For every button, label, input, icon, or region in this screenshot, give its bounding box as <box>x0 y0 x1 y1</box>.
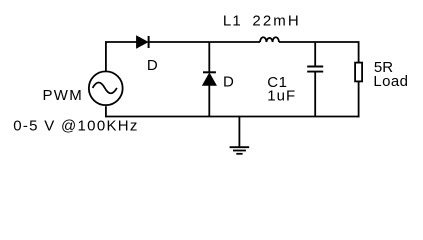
wire: capacitor top lead <box>314 42 316 66</box>
wire: ground stem <box>238 117 240 148</box>
ground <box>230 147 250 154</box>
wire: resistor bottom lead <box>358 81 360 117</box>
wire: freewheel node to inductor <box>209 41 260 43</box>
capacitor C1 <box>307 67 323 72</box>
voltage source V1 (PWM) <box>89 71 123 105</box>
wire: top, source to diode D anode <box>105 41 137 43</box>
wire: source top lead <box>105 42 107 71</box>
wire: capacitor node to top-right corner and down to resistor <box>315 42 358 63</box>
svg-text:L1: L1 <box>223 12 242 29</box>
wire: freewheel diode top lead <box>208 42 210 72</box>
svg-text:D: D <box>223 74 234 91</box>
wire: source bottom lead <box>105 106 107 117</box>
svg-text:1uF: 1uF <box>267 88 296 105</box>
inductor L1 <box>260 37 279 42</box>
wire: inductor to capacitor node <box>279 41 315 43</box>
diode D (series) <box>137 36 149 48</box>
svg-text:Load: Load <box>373 73 408 90</box>
wire: capacitor bottom lead <box>314 73 316 117</box>
resistor R (5R Load) <box>355 63 362 82</box>
wire: freewheel diode bottom lead <box>208 85 210 116</box>
svg-text:22mH: 22mH <box>252 12 300 29</box>
wire: top, diode to freewheel node <box>149 41 210 43</box>
diode D (freewheel) <box>203 72 216 85</box>
wire: bottom rail <box>106 116 360 118</box>
svg-text:PWM: PWM <box>43 87 84 104</box>
svg-text:0-5 V @100KHz: 0-5 V @100KHz <box>13 118 139 135</box>
svg-text:D: D <box>147 57 158 74</box>
